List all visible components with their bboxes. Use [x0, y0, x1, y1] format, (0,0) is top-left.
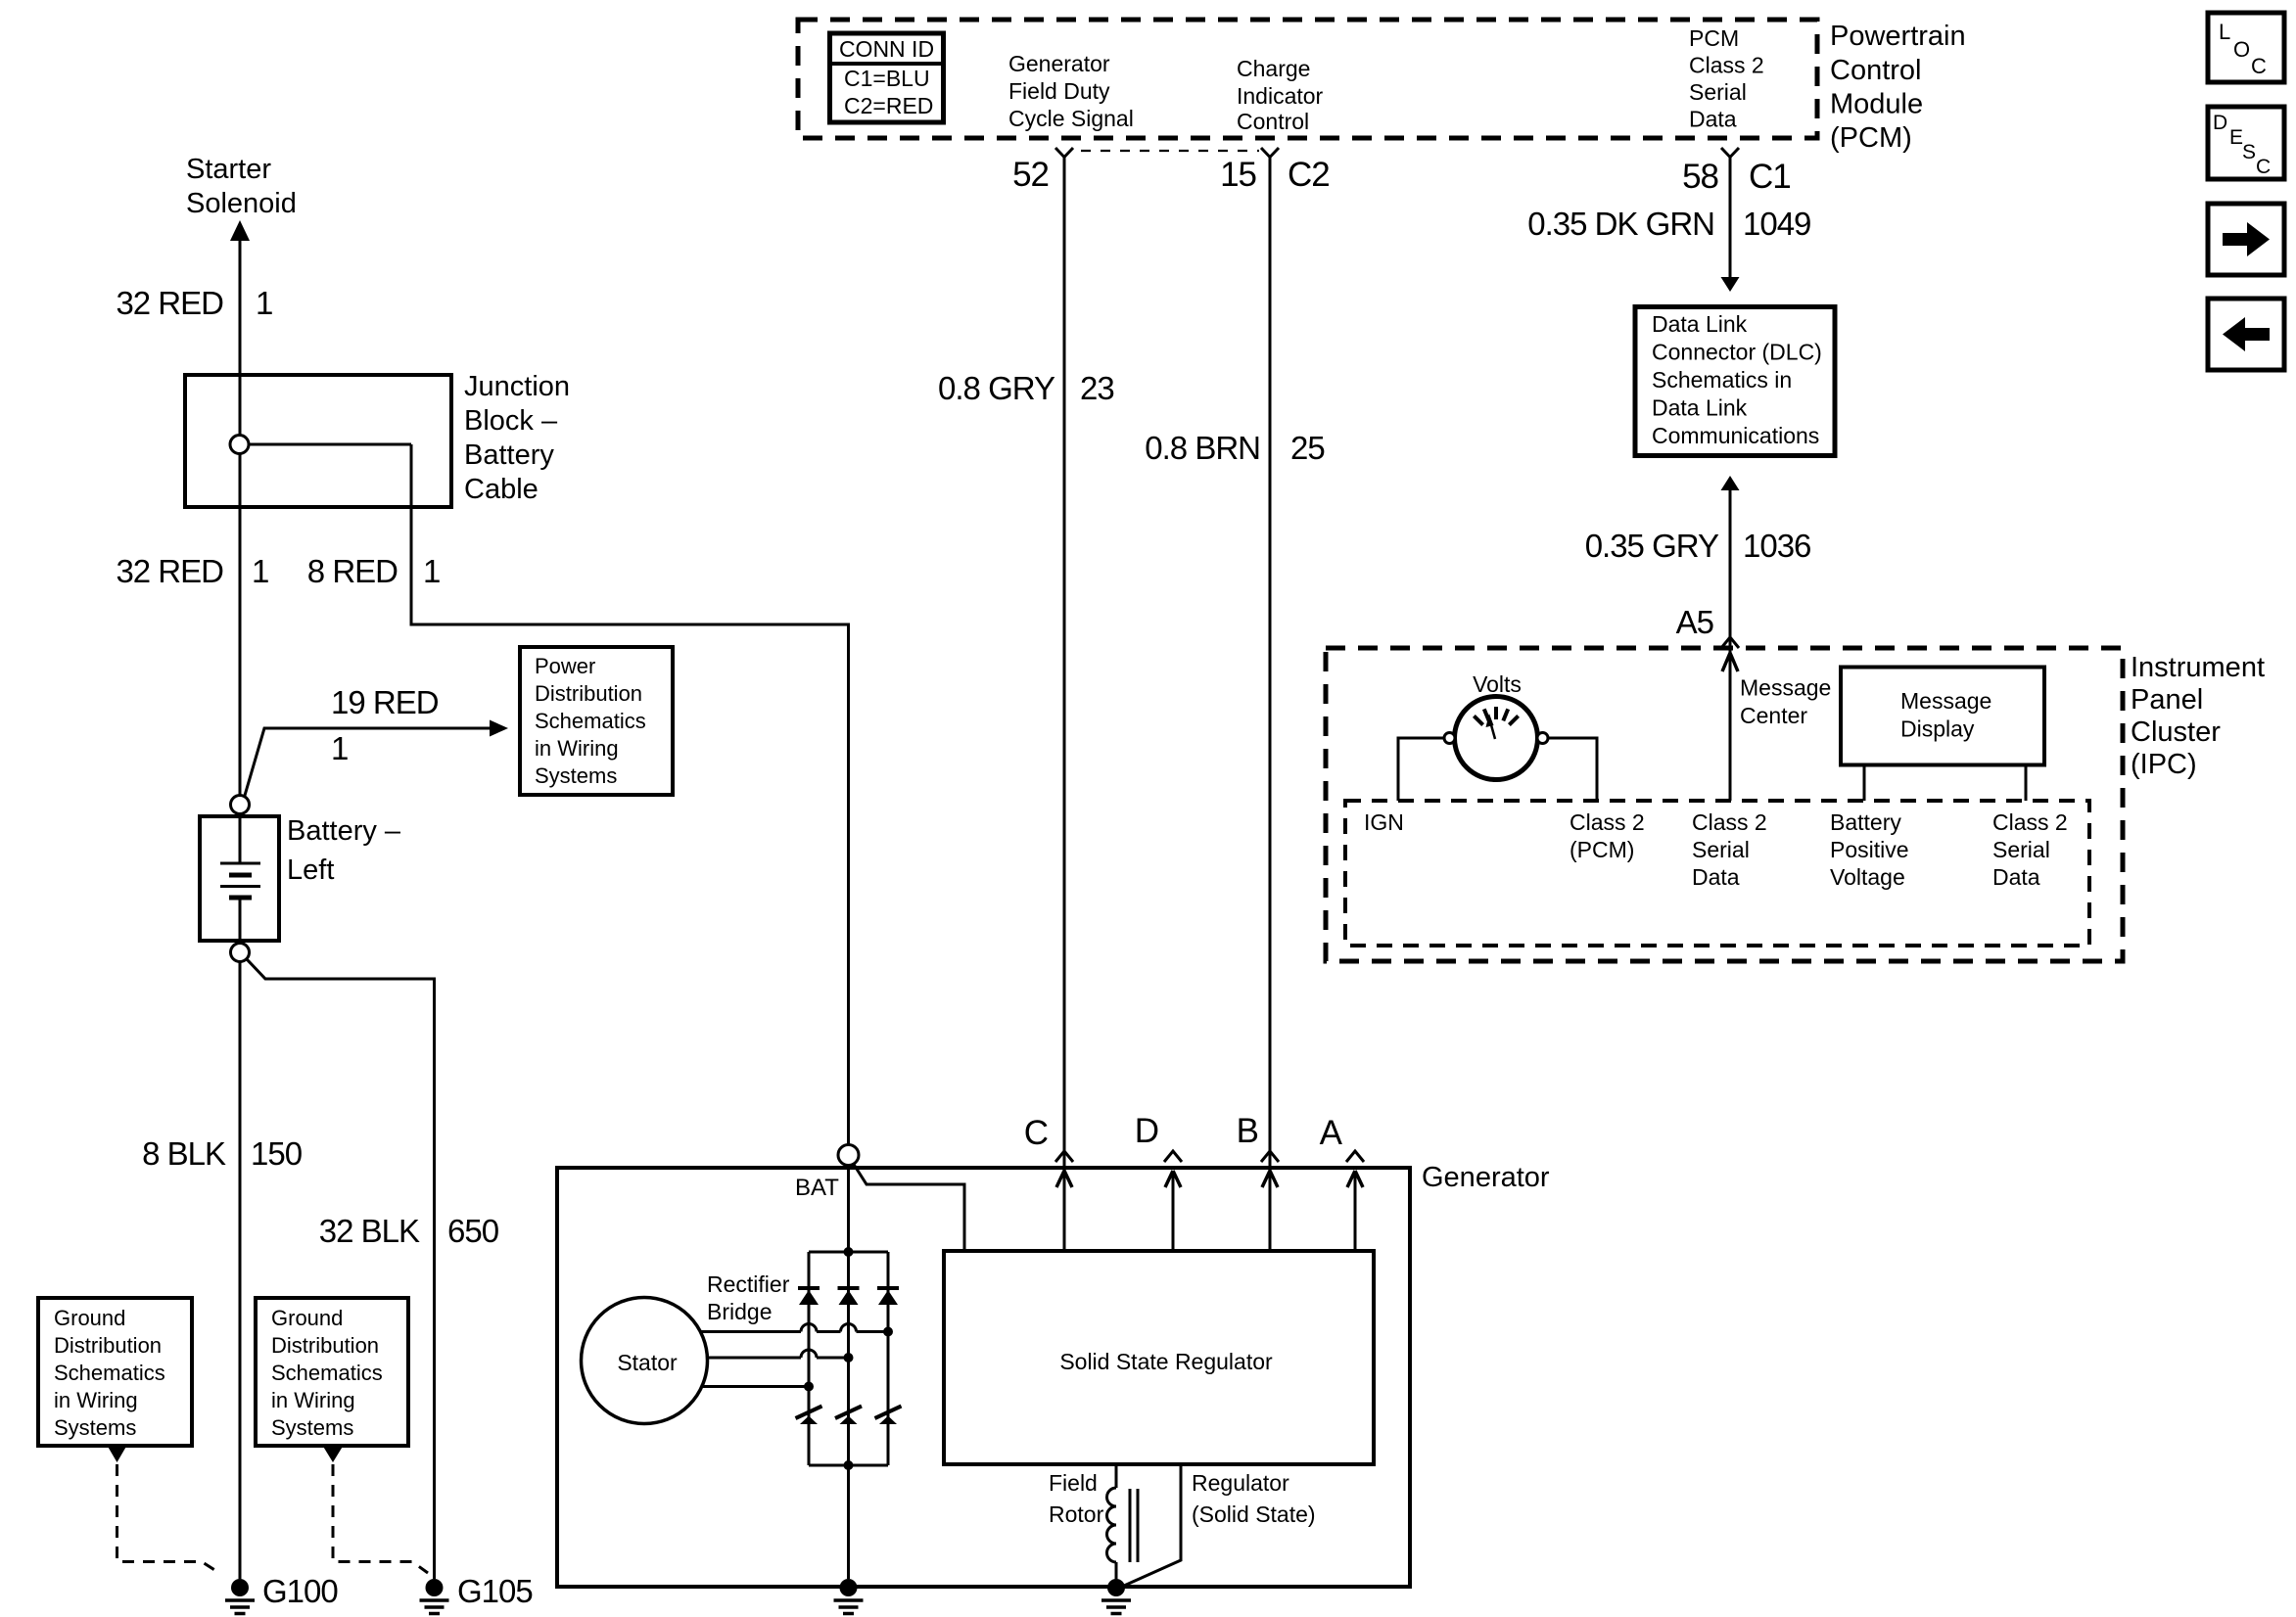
ground G100	[225, 1573, 338, 1614]
wire message display left stub	[1863, 764, 1866, 801]
icon LOC button	[2208, 13, 2284, 82]
svg-text:C1: C1	[1749, 158, 1791, 196]
svg-text:C: C	[2256, 156, 2271, 178]
icon back arrow button	[2208, 299, 2284, 370]
svg-text:Data Link: Data Link	[1652, 311, 1748, 337]
svg-text:Rotor: Rotor	[1049, 1501, 1104, 1527]
wire 19 RED tap	[244, 684, 508, 799]
svg-text:1: 1	[331, 730, 348, 766]
wire 23 (0.8 GRY) PCM pin 52 to generator C	[1063, 158, 1066, 1172]
svg-text:Battery: Battery	[1830, 809, 1901, 835]
svg-text:1: 1	[423, 553, 440, 589]
svg-text:Rectifier: Rectifier	[707, 1271, 790, 1297]
ground G105	[420, 1573, 533, 1614]
svg-text:Serial: Serial	[1689, 79, 1747, 105]
node IPC inner connector dashed box	[1345, 801, 2089, 946]
svg-text:58: 58	[1682, 158, 1718, 196]
svg-text:Module: Module	[1830, 89, 1923, 120]
svg-text:CONN ID: CONN ID	[839, 36, 934, 62]
wire label 0.35 GRY 1036	[1585, 528, 1811, 564]
svg-text:Communications: Communications	[1652, 423, 1819, 448]
pointer triangle right box	[322, 1445, 344, 1462]
module U1 Powertrain Control Module (PCM) dashed outline	[798, 20, 1817, 138]
svg-text:Volts: Volts	[1473, 671, 1522, 697]
wire stator phase 1	[700, 1324, 893, 1337]
dashed reference line to G105	[333, 1464, 428, 1573]
wire stator phase 2	[707, 1350, 854, 1363]
svg-text:Control: Control	[1830, 55, 1922, 86]
zener diode D6	[875, 1407, 902, 1425]
svg-text:650: 650	[447, 1213, 499, 1249]
module U2 Instrument Panel Cluster dashed outline	[1326, 648, 2123, 961]
svg-text:Control: Control	[1237, 109, 1309, 134]
svg-text:C2: C2	[1288, 156, 1330, 194]
svg-text:Message: Message	[1740, 675, 1831, 701]
svg-text:D: D	[2213, 112, 2227, 134]
wire label 0.8 BRN 25	[1145, 430, 1324, 466]
svg-text:in Wiring: in Wiring	[271, 1388, 355, 1412]
wire stator phase 3	[702, 1382, 814, 1392]
diode D1	[798, 1288, 820, 1305]
svg-text:L: L	[2219, 20, 2230, 44]
node Message Display box	[1841, 668, 2044, 765]
pin 52 connector mark	[1055, 148, 1073, 158]
svg-text:Cluster: Cluster	[2131, 716, 2221, 748]
zener diode D5	[835, 1407, 862, 1425]
svg-text:Panel: Panel	[2131, 684, 2203, 716]
node Regulator (Solid State) label	[1192, 1470, 1316, 1527]
svg-text:Display: Display	[1900, 716, 1975, 742]
svg-text:1036: 1036	[1743, 528, 1810, 564]
rectifier bridge rails	[809, 1252, 888, 1465]
node BAT terminal	[795, 1145, 859, 1202]
svg-text:Data: Data	[1692, 864, 1740, 890]
node Field Rotor label	[1049, 1470, 1104, 1527]
svg-text:D: D	[1135, 1112, 1158, 1150]
svg-text:(Solid State): (Solid State)	[1192, 1501, 1316, 1527]
svg-text:15: 15	[1220, 156, 1256, 194]
svg-text:C: C	[1024, 1114, 1048, 1152]
svg-text:Generator: Generator	[1422, 1162, 1550, 1193]
pin D connector mark	[1164, 1151, 1182, 1162]
node PCM title label	[1830, 21, 1966, 154]
inductor L1 field rotor coil	[1107, 1464, 1139, 1579]
wire label 0.35 DK GRN 1049	[1527, 206, 1810, 242]
svg-text:32 RED: 32 RED	[116, 553, 223, 589]
node junction bridge top	[844, 1247, 854, 1257]
svg-text:Battery: Battery	[464, 439, 554, 471]
svg-text:25: 25	[1290, 430, 1325, 466]
svg-text:Systems: Systems	[271, 1415, 353, 1440]
svg-text:1: 1	[256, 285, 272, 321]
node Message Center label	[1740, 675, 1831, 729]
svg-text:in Wiring: in Wiring	[535, 736, 619, 761]
wire message display right stub	[2025, 764, 2028, 801]
svg-text:Generator: Generator	[1008, 51, 1110, 76]
wire IGN to volts gauge	[1398, 738, 1444, 801]
svg-text:Schematics in: Schematics in	[1652, 367, 1792, 393]
svg-text:(PCM): (PCM)	[1830, 122, 1912, 154]
node Class 2 Serial Data label (right)	[1992, 809, 2068, 890]
node CONN ID table	[830, 33, 944, 122]
svg-text:Serial: Serial	[1692, 837, 1750, 862]
svg-text:A5: A5	[1676, 604, 1713, 640]
wire label 32 RED 1 (upper)	[116, 285, 272, 321]
svg-text:Distribution: Distribution	[271, 1333, 379, 1358]
svg-text:Field Duty: Field Duty	[1008, 78, 1110, 104]
wire label 0.8 GRY 23	[938, 370, 1114, 406]
pin A connector mark	[1346, 1151, 1364, 1162]
svg-text:Center: Center	[1740, 703, 1807, 728]
zener diode D4	[796, 1407, 822, 1425]
wire 1049 (0.35 DK GRN) PCM pin 58 to DLC	[1721, 158, 1740, 293]
battery B1 Battery - Left	[200, 796, 401, 962]
svg-text:Systems: Systems	[535, 763, 617, 788]
svg-text:0.35 DK GRN: 0.35 DK GRN	[1527, 206, 1714, 242]
svg-text:Instrument: Instrument	[2131, 652, 2265, 683]
svg-text:O: O	[2233, 37, 2250, 62]
stator winding	[582, 1298, 708, 1424]
svg-text:Powertrain: Powertrain	[1830, 21, 1966, 52]
wire class 2 serial data inside IPC	[1722, 650, 1738, 801]
svg-text:Field: Field	[1049, 1470, 1098, 1496]
svg-text:Bridge: Bridge	[707, 1299, 772, 1324]
svg-text:Class 2: Class 2	[1992, 809, 2068, 835]
wire C to regulator	[1056, 1171, 1072, 1251]
svg-text:Data: Data	[1689, 107, 1737, 132]
svg-text:Stator: Stator	[617, 1350, 678, 1375]
wire label 8 BLK 150	[142, 1135, 303, 1172]
wire battery to G100	[239, 962, 242, 1580]
svg-text:23: 23	[1080, 370, 1114, 406]
svg-text:Message: Message	[1900, 688, 1991, 714]
svg-text:C1=BLU: C1=BLU	[844, 66, 930, 91]
wire label 8 RED 1	[307, 553, 441, 589]
svg-text:150: 150	[251, 1135, 303, 1172]
svg-text:Class 2: Class 2	[1689, 53, 1764, 78]
svg-text:Schematics: Schematics	[54, 1361, 165, 1385]
svg-text:0.35 GRY: 0.35 GRY	[1585, 528, 1719, 564]
svg-text:C: C	[2251, 54, 2267, 78]
node Rectifier Bridge label	[707, 1271, 790, 1324]
dashed reference line to G100	[117, 1464, 220, 1573]
icon forward arrow button	[2208, 204, 2284, 275]
svg-text:Distribution: Distribution	[54, 1333, 162, 1358]
node Data Link Connector reference box	[1635, 307, 1835, 456]
svg-text:B: B	[1237, 1112, 1258, 1150]
wire junction block internal	[249, 443, 411, 446]
svg-text:Regulator: Regulator	[1192, 1470, 1289, 1496]
svg-text:Solid State Regulator: Solid State Regulator	[1059, 1349, 1273, 1374]
svg-text:Data Link: Data Link	[1652, 395, 1748, 421]
wire battery to G105 (32 BLK)	[247, 959, 435, 1579]
svg-text:Power: Power	[535, 654, 595, 678]
pin 58 connector mark	[1721, 148, 1739, 158]
svg-text:IGN: IGN	[1364, 809, 1404, 835]
wire 1036 (0.35 GRY) IPC A5 to DLC	[1721, 476, 1740, 648]
svg-text:S: S	[2242, 141, 2256, 163]
connector boundary dashed line	[1081, 150, 1259, 152]
svg-text:C2=RED: C2=RED	[844, 93, 933, 118]
wire label 32 RED 1 (lower)	[116, 553, 268, 589]
pin A5 connector mark	[1721, 637, 1739, 648]
junction block - battery cable	[185, 371, 570, 507]
wire regulator to ground	[1124, 1464, 1181, 1586]
node PCM Class 2 Serial Data label	[1689, 25, 1764, 132]
meter M1 Volts gauge	[1444, 671, 1548, 780]
svg-text:Class 2: Class 2	[1570, 809, 1645, 835]
svg-text:Ground: Ground	[271, 1306, 343, 1330]
svg-text:32 RED: 32 RED	[116, 285, 223, 321]
svg-text:52: 52	[1012, 156, 1049, 194]
svg-text:Charge: Charge	[1237, 56, 1310, 81]
node Charge Indicator Control label	[1237, 56, 1324, 134]
node IPC title label	[2131, 652, 2265, 780]
svg-text:0.8 GRY: 0.8 GRY	[938, 370, 1055, 406]
node Class 2 (PCM) label	[1570, 809, 1645, 862]
svg-text:(IPC): (IPC)	[2131, 749, 2197, 780]
ground generator case (left)	[834, 1579, 864, 1614]
wire bridge bottom to ground	[847, 1465, 850, 1579]
svg-text:Systems: Systems	[54, 1415, 136, 1440]
svg-text:1: 1	[252, 553, 268, 589]
node Ground Distribution reference box (right)	[256, 1298, 408, 1446]
svg-text:in Wiring: in Wiring	[54, 1388, 138, 1412]
diode D2	[838, 1288, 860, 1305]
pin 15 connector mark	[1261, 148, 1279, 158]
svg-text:Connector (DLC): Connector (DLC)	[1652, 340, 1822, 365]
node Starter Solenoid label	[186, 154, 297, 219]
node Generator Field Duty Cycle Signal label	[1008, 51, 1134, 131]
svg-text:8 BLK: 8 BLK	[142, 1135, 226, 1172]
svg-text:Battery –: Battery –	[287, 815, 401, 847]
wire D to regulator	[1165, 1171, 1181, 1251]
wire to starter solenoid (arrow up)	[230, 220, 250, 796]
svg-text:Serial: Serial	[1992, 837, 2050, 862]
diode D3	[877, 1288, 899, 1305]
node Class 2 Serial Data label (left)	[1692, 809, 1767, 890]
svg-text:Starter: Starter	[186, 154, 271, 185]
wire B to regulator	[1262, 1171, 1278, 1251]
svg-text:Ground: Ground	[54, 1306, 125, 1330]
node Power Distribution reference box	[520, 647, 673, 795]
pointer triangle left box	[107, 1445, 127, 1462]
node junction bridge bottom	[844, 1460, 854, 1470]
svg-text:19 RED: 19 RED	[331, 684, 439, 720]
svg-text:Block –: Block –	[464, 405, 558, 437]
svg-text:PCM: PCM	[1689, 25, 1739, 51]
svg-text:A: A	[1320, 1114, 1343, 1152]
ground field rotor (right)	[1101, 1579, 1131, 1614]
svg-text:Cable: Cable	[464, 474, 539, 505]
svg-text:Distribution: Distribution	[535, 681, 642, 706]
wire 25 (0.8 BRN) PCM pin 15 to generator B	[1269, 158, 1272, 1172]
node Battery Positive Voltage label	[1830, 809, 1909, 890]
svg-text:(PCM): (PCM)	[1570, 837, 1634, 862]
module solid state regulator box	[944, 1251, 1374, 1464]
icon DESC button	[2208, 107, 2284, 179]
svg-text:G105: G105	[457, 1573, 533, 1609]
svg-text:Class 2: Class 2	[1692, 809, 1767, 835]
svg-text:Indicator: Indicator	[1237, 83, 1324, 109]
svg-text:Voltage: Voltage	[1830, 864, 1905, 890]
svg-text:E: E	[2229, 126, 2243, 149]
wire label 32 BLK 650	[319, 1213, 499, 1249]
svg-text:8 RED: 8 RED	[307, 553, 398, 589]
svg-text:Positive: Positive	[1830, 837, 1909, 862]
svg-text:BAT: BAT	[795, 1175, 839, 1201]
pin C connector mark	[1055, 1151, 1073, 1162]
wire BAT to rectifier bridge	[847, 1166, 850, 1253]
module G1 Generator box	[557, 1168, 1410, 1587]
svg-text:Solenoid: Solenoid	[186, 188, 297, 219]
svg-text:1049: 1049	[1743, 206, 1810, 242]
pin B connector mark	[1261, 1151, 1279, 1162]
svg-text:Schematics: Schematics	[535, 709, 646, 733]
svg-text:Schematics: Schematics	[271, 1361, 383, 1385]
wire A to regulator	[1347, 1171, 1363, 1251]
svg-text:0.8 BRN: 0.8 BRN	[1145, 430, 1260, 466]
svg-text:32 BLK: 32 BLK	[319, 1213, 420, 1249]
svg-text:Data: Data	[1992, 864, 2040, 890]
wire 8 RED to generator BAT	[411, 444, 849, 1145]
node Ground Distribution reference box (left)	[38, 1298, 192, 1446]
svg-text:Left: Left	[287, 855, 334, 886]
svg-text:G100: G100	[262, 1573, 338, 1609]
svg-text:Junction: Junction	[464, 371, 570, 402]
wire BAT to regulator	[853, 1163, 964, 1251]
node junction terminal	[230, 436, 249, 454]
svg-text:Cycle Signal: Cycle Signal	[1008, 106, 1134, 131]
wire Class 2 (PCM) to volts gauge	[1548, 738, 1597, 801]
